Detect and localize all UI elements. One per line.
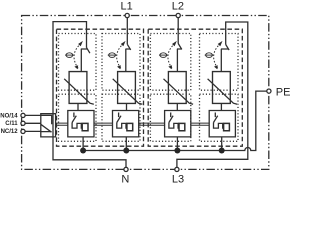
mechanical linkage [56, 123, 68, 125]
mechanical linkage [94, 123, 113, 125]
wire indicator to bus module 4 [221, 137, 223, 151]
lower arrowhead module 4 [214, 65, 218, 69]
svg-text:C/11: C/11 [5, 121, 18, 127]
wire varistor to indicator module 4 [220, 103, 222, 110]
dotted disconnector compartment module 2 [102, 34, 140, 91]
lower arrowhead module 2 [117, 65, 121, 69]
disconnector fixed contact flick module 3 [178, 44, 181, 50]
svg-text:L3: L3 [172, 173, 184, 185]
terminal L1 [125, 13, 129, 17]
varistor rectangle module 1 [69, 72, 87, 104]
dotted varistor compartment module 1 [59, 94, 97, 141]
arrowhead module 2 [121, 41, 126, 46]
terminal PE [267, 89, 271, 93]
device boundary frame (dash-dot-dot) [22, 16, 269, 170]
terminal L3 [175, 167, 179, 171]
arrowhead module 3 [172, 41, 177, 46]
varistor diagonal module 4 [208, 79, 238, 105]
signalling contact box [41, 114, 56, 137]
varistor diagonal module 3 [164, 79, 194, 105]
junction module 3 to bus [174, 148, 180, 154]
terminal NO/14 [21, 113, 25, 117]
actuation arc module 4 [214, 44, 221, 69]
indicator blade symbol module 1 [72, 113, 76, 123]
indicator blade symbol module 3 [169, 113, 173, 123]
terminal L2 [176, 13, 180, 17]
terminal C/11 [21, 121, 25, 125]
NO contact path [41, 115, 52, 124]
svg-text:L1: L1 [120, 1, 132, 13]
wire N to module 1 [53, 22, 126, 168]
indicator box module 3 [165, 111, 191, 137]
dotted disconnector compartment module 1 [59, 34, 97, 91]
disconnector moving contact module 1 [81, 49, 88, 72]
disconnector fixed contact flick module 4 [226, 45, 229, 51]
terminal N [124, 167, 128, 171]
dotted disconnector compartment module 3 [150, 34, 190, 91]
thermal symbol module 2 [108, 53, 117, 58]
varistor rectangle module 3 [168, 72, 186, 104]
varistor rectangle module 2 [118, 72, 136, 104]
junction module 2 to bus [123, 148, 129, 154]
changeover blade and NC path [41, 124, 52, 132]
arrowhead module 4 [218, 41, 223, 46]
actuation arc module 1 [74, 44, 81, 69]
dotted varistor compartment module 2 [102, 94, 140, 141]
wire varistor to indicator module 3 [176, 103, 178, 110]
indicator step symbol module 4 [214, 123, 224, 129]
disconnector moving contact module 2 [125, 49, 130, 72]
lower arrowhead module 3 [168, 65, 172, 69]
dotted disconnector compartment module 4 [200, 34, 239, 91]
common bus to PE with crossover hop [83, 91, 267, 150]
varistor diagonal module 1 [64, 79, 94, 105]
wire L1 to module 2 [126, 18, 128, 45]
junction module 1 to bus [80, 148, 86, 154]
indicator window module 2 [127, 123, 133, 130]
actuation arc module 3 [168, 44, 175, 69]
indicator box module 4 [209, 111, 235, 137]
wires to signalling contact [23, 115, 41, 131]
disconnector moving contact module 3 [177, 49, 182, 72]
disconnector moving contact module 4 [221, 49, 229, 72]
svg-text:NO/14: NO/14 [0, 113, 18, 119]
dashed enclosure modules 1-2 [57, 29, 144, 146]
indicator window module 4 [224, 123, 230, 130]
wire varistor to indicator module 1 [77, 103, 79, 110]
wire varistor to indicator module 2 [126, 103, 128, 110]
disconnector fixed contact flick module 2 [127, 44, 130, 50]
svg-text:N: N [121, 173, 129, 185]
wire indicator to bus module 3 [176, 137, 178, 151]
disconnector fixed contact flick module 1 [87, 48, 90, 54]
thermal symbol module 3 [159, 53, 168, 58]
mechanical linkage [138, 123, 165, 125]
indicator blade symbol module 4 [214, 113, 218, 123]
svg-text:NC/12: NC/12 [1, 129, 19, 135]
junction module 4 to bus [219, 148, 225, 154]
indicator step symbol module 3 [169, 123, 179, 129]
indicator blade symbol module 2 [117, 113, 121, 123]
varistor rectangle module 4 [213, 72, 231, 104]
arrowhead module 1 [78, 41, 83, 46]
dotted varistor compartment module 4 [200, 94, 239, 141]
actuation arc module 2 [117, 44, 124, 69]
wire L3 to module 4 [177, 22, 248, 167]
indicator window module 1 [82, 123, 88, 130]
wire indicator to bus module 2 [125, 137, 127, 151]
wire indicator to bus module 1 [82, 137, 84, 151]
indicator box module 1 [68, 111, 94, 137]
svg-text:L2: L2 [172, 1, 184, 13]
indicator step symbol module 1 [72, 123, 82, 129]
thermal symbol module 4 [205, 53, 214, 58]
terminal NC/12 [21, 129, 25, 133]
dotted varistor compartment module 3 [150, 94, 190, 141]
wire L2 to module 3 [177, 18, 179, 44]
thermal symbol module 1 [65, 53, 74, 58]
dashed enclosure modules 3-4 [148, 29, 242, 146]
varistor diagonal module 2 [113, 79, 143, 105]
indicator step symbol module 2 [117, 123, 127, 129]
indicator box module 2 [113, 111, 139, 137]
indicator window module 3 [179, 123, 185, 130]
mechanical linkage [191, 123, 209, 125]
lower arrowhead module 1 [74, 65, 78, 69]
svg-text:PE: PE [276, 86, 291, 98]
